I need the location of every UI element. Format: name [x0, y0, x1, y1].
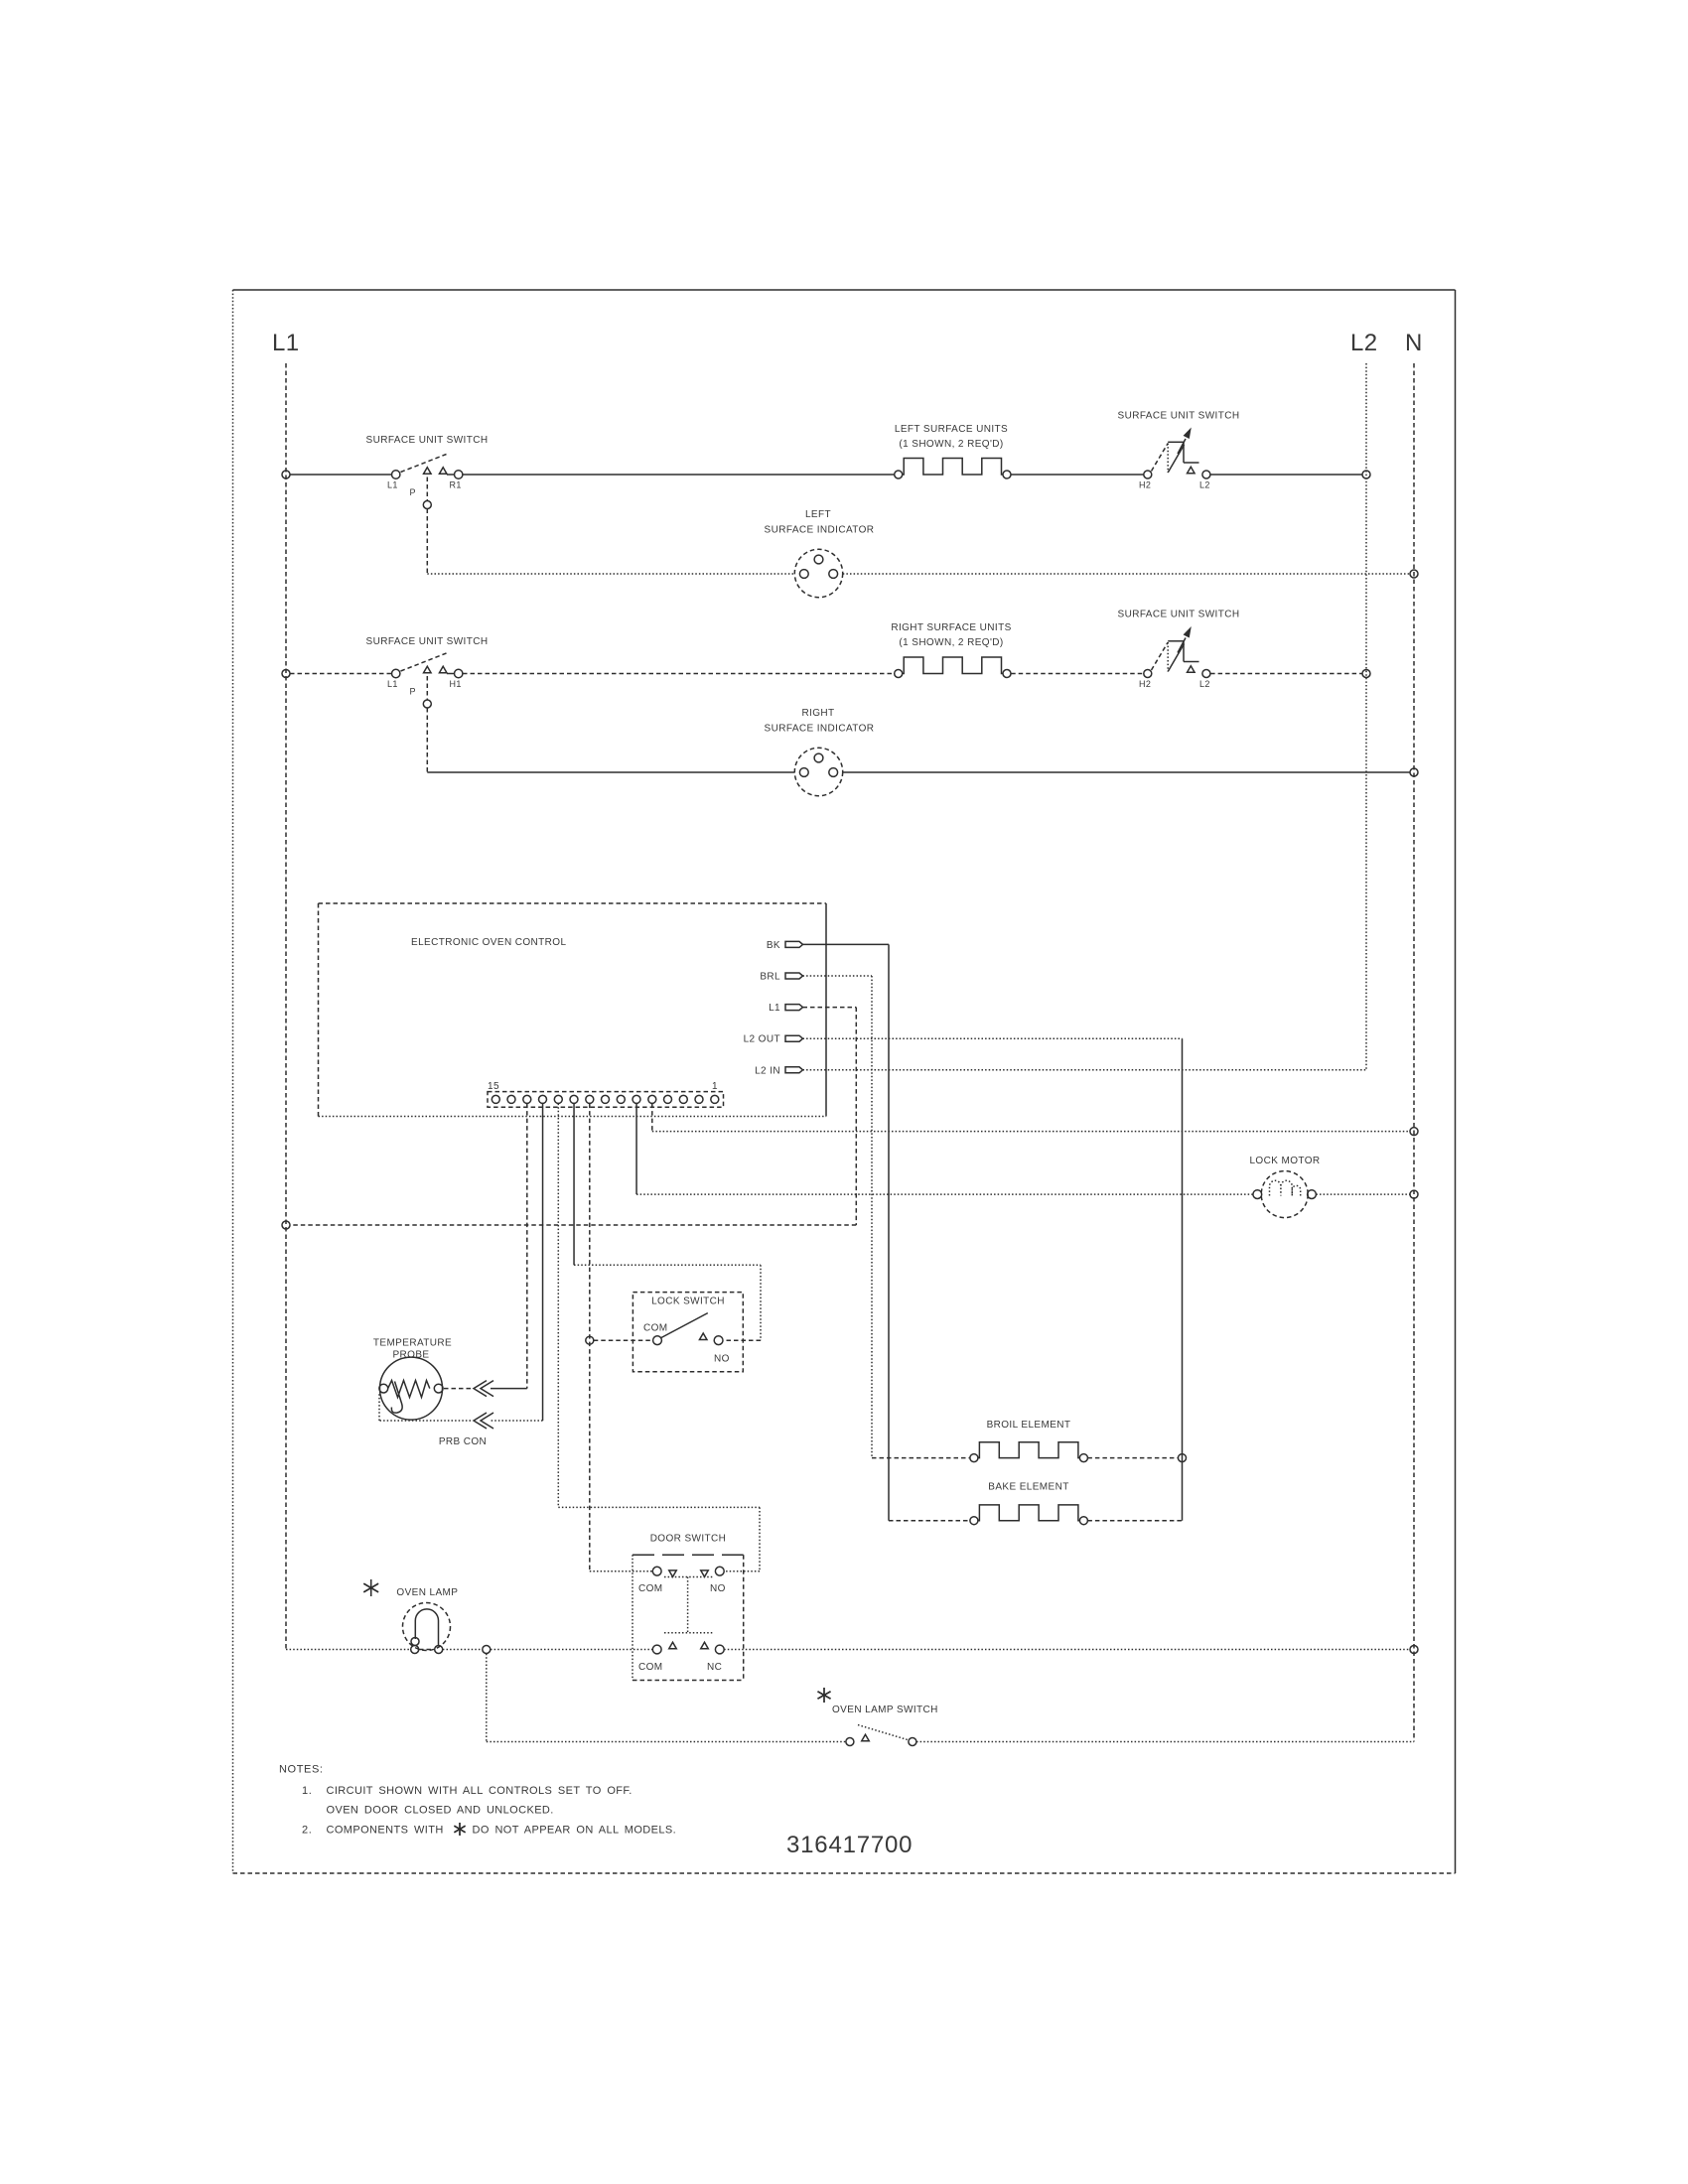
- box door switch S2: [633, 1555, 744, 1680]
- svg-text:RIGHT SURFACE UNITS: RIGHT SURFACE UNITS: [891, 622, 1011, 633]
- pin 3 of terminal strip: [679, 1095, 687, 1103]
- wire lock motor to N bus: [1316, 1193, 1410, 1195]
- svg-text:NOTES:: NOTES:: [279, 1764, 324, 1776]
- switch arm oven lamp switch: [858, 1725, 910, 1741]
- terminal left of bake element: [970, 1517, 978, 1525]
- svg-text:H2: H2: [1139, 679, 1151, 689]
- wire pin12 to probe connector lower: [491, 1420, 543, 1422]
- wire row 1 left surface circuit segment L1-bus to switch: [290, 474, 392, 476]
- svg-text:N: N: [1405, 330, 1423, 356]
- contact P triangle (row 2 right surface circuit left switch): [424, 666, 432, 673]
- svg-text:L1: L1: [769, 1003, 780, 1014]
- pin 7 of terminal strip: [617, 1095, 625, 1103]
- svg-text:ELECTRONIC OVEN CONTROL: ELECTRONIC OVEN CONTROL: [411, 937, 566, 948]
- svg-text:COM: COM: [638, 1662, 663, 1673]
- wire L1 bus vertical: [285, 363, 287, 1650]
- pin 11 of terminal strip: [554, 1095, 562, 1103]
- connector PRB CON upper chevron: [474, 1381, 487, 1397]
- terminal left of broil element: [970, 1454, 978, 1462]
- pin 5 of terminal strip: [648, 1095, 656, 1103]
- svg-text:LEFT: LEFT: [805, 509, 831, 520]
- wire probe connector right segment: [491, 1388, 527, 1390]
- terminal L2 of right surface unit switch (row 2 right surface circuit): [1202, 670, 1210, 678]
- terminal right of bake element: [1079, 1517, 1087, 1525]
- wire junction to lock switch COM: [594, 1339, 653, 1341]
- contact triangle door switch lower left: [669, 1642, 677, 1649]
- terminal right of surface units element (row 1 left surface circuit): [1003, 471, 1011, 478]
- wire BK vertical to bake element: [888, 944, 890, 1520]
- wire bake element to L2 OUT: [1087, 1520, 1182, 1522]
- wire broil element to L2 OUT: [1087, 1457, 1178, 1459]
- wire L2 OUT horizontal: [803, 1037, 1183, 1039]
- wire to door switch NO terminal: [724, 1570, 760, 1572]
- svg-text:SURFACE INDICATOR: SURFACE INDICATOR: [765, 525, 875, 536]
- svg-text:1.: 1.: [302, 1785, 312, 1797]
- svg-text:L2: L2: [1199, 480, 1210, 490]
- pin 4 of terminal strip: [664, 1095, 672, 1103]
- pin 10 of terminal strip: [570, 1095, 578, 1103]
- contact triangle oven lamp switch: [862, 1734, 870, 1741]
- svg-text:SURFACE UNIT SWITCH: SURFACE UNIT SWITCH: [1118, 411, 1240, 422]
- terminal P connector (row 2 right surface circuit): [423, 700, 431, 708]
- svg-text:(1 SHOWN, 2 REQ'D): (1 SHOWN, 2 REQ'D): [899, 637, 1003, 648]
- svg-text:L1: L1: [387, 480, 398, 490]
- terminal left of oven lamp switch: [846, 1738, 854, 1746]
- wire junction to door switch COM lower: [491, 1649, 652, 1651]
- wire element to right switch (row 1 left surface circuit): [1011, 474, 1143, 476]
- terminal lug BRL of oven control: [785, 973, 803, 979]
- wire L1 to L1 bus: [290, 1224, 856, 1226]
- terminal left of surface units element (row 2 right surface circuit): [895, 670, 903, 678]
- pin 12 of terminal strip: [539, 1095, 547, 1103]
- connector terminal strip P1 (15..1): [488, 1092, 724, 1108]
- svg-text:2.: 2.: [302, 1825, 312, 1837]
- terminal H1 of left surface unit switch (row 2 right surface circuit): [455, 669, 463, 677]
- page border bottom: [233, 1872, 1456, 1874]
- wire pin11 down to door switch NO: [759, 1507, 761, 1570]
- wire P branch down (row 2 right surface circuit): [426, 676, 428, 700]
- svg-text:SURFACE INDICATOR: SURFACE INDICATOR: [765, 724, 875, 735]
- resistor surface units element (row 2 right surface circuit): [903, 657, 1003, 674]
- terminal L1 of left surface unit switch (row 1 left surface circuit): [392, 471, 400, 478]
- terminal NO of lock switch: [714, 1336, 723, 1345]
- wire switch to R1 terminal: [447, 474, 455, 476]
- terminal lug BK of oven control: [785, 941, 803, 947]
- symbol asterisk in note 2: [459, 1823, 461, 1836]
- terminal right of broil element: [1079, 1454, 1087, 1462]
- terminal COM of lock switch: [653, 1336, 662, 1345]
- page border right: [1455, 290, 1457, 1873]
- wire element to right switch (row 2 right surface circuit): [1011, 673, 1143, 675]
- svg-text:P: P: [410, 487, 416, 497]
- resistor temperature probe RT1: [379, 1357, 443, 1420]
- node junction L2 bus / row 2 right surface circuit: [1362, 670, 1370, 678]
- resistor bake element: [978, 1505, 1080, 1521]
- terminal right of surface units element (row 2 right surface circuit): [1003, 670, 1011, 678]
- node junction N bus / row 2 right surface circuit indicator: [1410, 768, 1418, 776]
- wire BK horizontal: [803, 943, 890, 945]
- wire junction down to oven lamp switch: [486, 1654, 488, 1742]
- svg-text:COM: COM: [643, 1323, 668, 1334]
- wire pin5 to N bus: [652, 1131, 1410, 1133]
- box electronic oven control U1: [319, 903, 827, 1117]
- svg-text:PROBE: PROBE: [392, 1350, 429, 1361]
- node junction L2 bus / row 1 left surface circuit: [1362, 471, 1370, 478]
- svg-text:NC: NC: [707, 1662, 722, 1673]
- page border top: [233, 289, 1456, 291]
- wire N bus vertical: [1413, 363, 1415, 1742]
- terminal H2 of right surface unit switch (row 1 left surface circuit): [1144, 471, 1152, 478]
- wire row 1 left surface circuit to surface units element: [463, 474, 895, 476]
- motor lock motor M1: [1253, 1171, 1317, 1218]
- wire P branch to indicator line (row 2 right surface circuit): [426, 708, 428, 772]
- wire pin9 to door switch COM terminal: [590, 1570, 652, 1572]
- svg-text:COM: COM: [638, 1583, 663, 1594]
- indicator row 1 left surface circuit surface indicator lamp: [794, 549, 842, 597]
- svg-text:L2 OUT: L2 OUT: [744, 1034, 780, 1045]
- node junction L2 OUT / broil element: [1179, 1454, 1187, 1462]
- svg-text:H1: H1: [450, 679, 462, 689]
- svg-text:L2: L2: [1350, 330, 1378, 356]
- contact triangle door switch upper right: [701, 1570, 709, 1577]
- contact triangle lock switch NO: [699, 1333, 707, 1340]
- lamp oven lamp DS1: [403, 1603, 451, 1654]
- wire pin11 jog right: [558, 1506, 760, 1508]
- svg-text:BROIL ELEMENT: BROIL ELEMENT: [987, 1420, 1071, 1431]
- pin 9 of terminal strip: [586, 1095, 594, 1103]
- wire L2 IN to L2 bus: [803, 1069, 1367, 1071]
- door switch actuator link: [687, 1577, 689, 1633]
- svg-text:1: 1: [712, 1081, 718, 1092]
- pin 8 of terminal strip: [602, 1095, 610, 1103]
- contact triangle (row 2 right surface circuit left switch): [439, 666, 447, 673]
- svg-text:L1: L1: [272, 330, 300, 356]
- svg-text:NO: NO: [714, 1354, 730, 1365]
- wire to lock switch NO terminal: [723, 1339, 761, 1341]
- contact P triangle (row 1 left surface circuit left switch): [424, 468, 432, 475]
- wire row 2 right surface circuit segment L1-bus to switch: [290, 673, 392, 675]
- switch right surface unit switch body (row 2 right surface circuit): [1152, 628, 1199, 672]
- terminal L1 of left surface unit switch (row 2 right surface circuit): [392, 669, 400, 677]
- wire pin11 down: [557, 1104, 559, 1508]
- wire L2 bus vertical: [1365, 363, 1367, 1070]
- wire chevron to probe left loop: [379, 1420, 471, 1422]
- node junction lamp / lamp switch branch: [483, 1646, 491, 1654]
- wire pin10 down: [573, 1104, 575, 1266]
- wire door switch NC to N bus: [724, 1649, 1410, 1651]
- node junction L1 bus / row 1 left surface circuit: [282, 471, 290, 478]
- node junction N bus / lock motor: [1410, 1190, 1418, 1198]
- svg-text:R1: R1: [450, 480, 462, 490]
- svg-text:H2: H2: [1139, 480, 1151, 490]
- wire oven lamp switch to N bus: [916, 1741, 1414, 1743]
- wire L1 bus to oven lamp: [286, 1649, 411, 1651]
- door switch actuator top bar: [664, 1576, 713, 1578]
- svg-text:P: P: [410, 687, 416, 697]
- node junction L1 bus / oven control L1: [282, 1221, 290, 1229]
- wire pin10 jog right: [574, 1264, 761, 1266]
- symbol asterisk oven lamp switch: [823, 1688, 825, 1703]
- switch right surface unit switch body (row 1 left surface circuit): [1152, 429, 1199, 473]
- indicator row 2 right surface circuit surface indicator lamp: [794, 748, 842, 795]
- svg-text:L1: L1: [387, 679, 398, 689]
- wire BK to bake element: [889, 1520, 970, 1522]
- svg-text:OVEN LAMP SWITCH: OVEN LAMP SWITCH: [832, 1705, 938, 1715]
- svg-text:CIRCUIT SHOWN WITH ALL CONTROL: CIRCUIT SHOWN WITH ALL CONTROLS SET TO O…: [327, 1785, 633, 1797]
- contact triangle door switch lower right: [701, 1642, 709, 1649]
- wire pin5 down: [651, 1104, 653, 1132]
- box lock switch S3: [633, 1293, 743, 1372]
- wire chevron to probe right terminal: [443, 1388, 471, 1390]
- resistor surface units element (row 1 left surface circuit): [903, 459, 1003, 476]
- terminal lug L2 OUT of oven control: [785, 1035, 803, 1041]
- wire pin9 down to door switch COM: [589, 1104, 591, 1571]
- resistor broil element: [978, 1442, 1080, 1458]
- svg-text:DO NOT APPEAR ON ALL MODELS.: DO NOT APPEAR ON ALL MODELS.: [473, 1825, 677, 1837]
- svg-text:LOCK MOTOR: LOCK MOTOR: [1249, 1156, 1320, 1166]
- node junction pin9 wire / lock switch COM: [586, 1336, 594, 1344]
- pin 13 of terminal strip: [523, 1095, 531, 1103]
- svg-text:BAKE ELEMENT: BAKE ELEMENT: [988, 1482, 1069, 1493]
- wire row 2 right surface circuit to surface units element: [463, 673, 895, 675]
- wire to oven lamp switch: [487, 1741, 846, 1743]
- svg-text:316417700: 316417700: [786, 1832, 913, 1858]
- terminal COM lower of door switch: [652, 1645, 661, 1654]
- contact triangle (row 2 right surface circuit right switch): [1188, 666, 1196, 673]
- svg-text:LOCK SWITCH: LOCK SWITCH: [651, 1297, 725, 1307]
- svg-text:L2 IN: L2 IN: [755, 1065, 780, 1076]
- wire L1 vertical: [855, 1008, 857, 1225]
- terminal H2 of right surface unit switch (row 2 right surface circuit): [1144, 670, 1152, 678]
- terminal L2 of right surface unit switch (row 1 left surface circuit): [1202, 471, 1210, 478]
- connector PRB CON lower chevron: [474, 1413, 487, 1429]
- svg-text:(1 SHOWN, 2 REQ'D): (1 SHOWN, 2 REQ'D): [899, 439, 1003, 450]
- wire probe left loop vertical: [378, 1393, 380, 1422]
- svg-text:OVEN LAMP: OVEN LAMP: [396, 1587, 458, 1598]
- wire row 2 right surface circuit indicator to N bus: [843, 771, 1410, 773]
- svg-text:NO: NO: [710, 1583, 726, 1594]
- wire to row 1 left surface circuit indicator: [427, 573, 794, 575]
- terminal left of surface units element (row 1 left surface circuit): [895, 471, 903, 478]
- wire pin6 down: [635, 1104, 637, 1195]
- svg-text:OVEN DOOR CLOSED AND UNLOCKED.: OVEN DOOR CLOSED AND UNLOCKED.: [327, 1805, 554, 1817]
- wire pin6 to lock motor: [636, 1193, 1253, 1195]
- node junction L1 bus / row 2 right surface circuit: [282, 670, 290, 678]
- svg-text:BRL: BRL: [760, 972, 780, 983]
- symbol asterisk oven lamp: [370, 1579, 372, 1596]
- wire pin13 to temperature probe: [526, 1104, 528, 1389]
- wire BRL vertical to broil element: [871, 976, 873, 1458]
- svg-text:RIGHT: RIGHT: [801, 708, 834, 719]
- wire row 2 right surface circuit to L2 bus: [1210, 673, 1362, 675]
- wire to row 2 right surface circuit indicator: [427, 771, 794, 773]
- svg-text:15: 15: [488, 1081, 499, 1092]
- pin 14 of terminal strip: [507, 1095, 515, 1103]
- wire P branch to indicator line (row 1 left surface circuit): [426, 509, 428, 575]
- svg-text:LEFT SURFACE UNITS: LEFT SURFACE UNITS: [895, 424, 1008, 435]
- svg-text:SURFACE UNIT SWITCH: SURFACE UNIT SWITCH: [1118, 610, 1240, 620]
- wire BRL horizontal: [803, 975, 873, 977]
- terminal NO of door switch: [715, 1567, 724, 1575]
- terminal right of oven lamp switch: [909, 1738, 916, 1746]
- wire pin10 down to lock switch NO: [760, 1265, 762, 1340]
- pin 2 of terminal strip: [695, 1095, 703, 1103]
- svg-text:BK: BK: [767, 940, 780, 951]
- node junction N bus / lamp circuit: [1410, 1646, 1418, 1654]
- page border left: [232, 290, 234, 1873]
- wire row 1 left surface circuit indicator to N bus: [843, 573, 1410, 575]
- svg-text:L2: L2: [1199, 679, 1210, 689]
- node junction N bus / pin5 wire: [1410, 1128, 1418, 1136]
- terminal lug L1 of oven control: [785, 1005, 803, 1011]
- wire L1 horizontal: [803, 1007, 857, 1009]
- switch arm (row 2 right surface circuit left switch): [401, 653, 447, 671]
- contact triangle (row 1 left surface circuit left switch): [439, 468, 447, 475]
- wire row 1 left surface circuit to L2 bus: [1210, 474, 1362, 476]
- wire oven lamp to junction: [443, 1649, 483, 1651]
- svg-text:PRB CON: PRB CON: [439, 1436, 487, 1447]
- switch arm lock switch: [661, 1313, 708, 1338]
- svg-text:COMPONENTS WITH: COMPONENTS WITH: [327, 1825, 444, 1837]
- pin 1 of terminal strip: [711, 1095, 719, 1103]
- pin 6 of terminal strip: [633, 1095, 640, 1103]
- terminal R1 of left surface unit switch (row 1 left surface circuit): [455, 471, 463, 478]
- node junction N bus / row 1 left surface circuit indicator: [1410, 570, 1418, 578]
- contact triangle door switch upper left: [669, 1570, 677, 1577]
- terminal NC of door switch: [715, 1645, 724, 1654]
- terminal lug L2 IN of oven control: [785, 1067, 803, 1073]
- svg-text:SURFACE UNIT SWITCH: SURFACE UNIT SWITCH: [366, 636, 489, 647]
- wire BRL to broil element: [872, 1457, 970, 1459]
- door switch actuator bottom bar: [664, 1632, 713, 1634]
- wire P branch down (row 1 left surface circuit): [426, 478, 428, 501]
- svg-text:TEMPERATURE: TEMPERATURE: [373, 1338, 452, 1349]
- svg-text:SURFACE UNIT SWITCH: SURFACE UNIT SWITCH: [366, 435, 489, 446]
- terminal COM upper of door switch: [652, 1567, 661, 1575]
- pin 15 of terminal strip: [492, 1095, 499, 1103]
- wire switch to H1 terminal: [447, 673, 455, 675]
- contact triangle (row 1 left surface circuit right switch): [1188, 467, 1196, 474]
- terminal P connector (row 1 left surface circuit): [423, 501, 431, 509]
- wire pin12 down: [542, 1104, 544, 1421]
- switch arm (row 1 left surface circuit left switch): [401, 455, 447, 473]
- svg-text:DOOR SWITCH: DOOR SWITCH: [650, 1534, 727, 1545]
- wire L2 OUT vertical to elements: [1182, 1038, 1184, 1521]
